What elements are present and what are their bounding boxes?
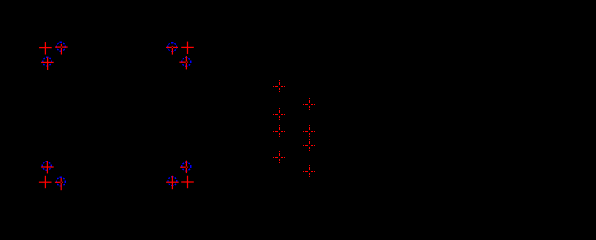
fiducial cross I (bottom-left pair right, selected) bbox=[55, 178, 63, 190]
dark centre dot of cross I bbox=[61, 182, 62, 183]
fiducial cross J (bottom-right upper, selected) bbox=[180, 161, 188, 173]
dark centre dot of cross D bbox=[172, 47, 173, 48]
selection circle on cross K bbox=[168, 177, 177, 186]
selection circle on cross D bbox=[168, 43, 177, 52]
fiducial cross F (top-right lower, selected) bbox=[179, 56, 188, 69]
fiducial cross H (bottom-left, plain) bbox=[39, 176, 52, 188]
selection circle on cross B bbox=[57, 42, 66, 51]
selection circle on cross F bbox=[182, 58, 191, 67]
dashed pad cross N4 bbox=[303, 165, 315, 177]
dashed pad cross M2 bbox=[273, 108, 285, 120]
dashed pad cross M4 bbox=[273, 151, 285, 163]
dashed pad cross M3 bbox=[273, 125, 285, 137]
selection circle on cross G bbox=[42, 162, 51, 171]
selection circle on cross J bbox=[182, 162, 191, 171]
dark centre dot of cross F bbox=[186, 62, 187, 63]
dashed pad cross N2 bbox=[303, 125, 315, 137]
selection circle on cross I bbox=[57, 177, 66, 186]
fiducial cross D (top-right pair left, selected) bbox=[166, 46, 178, 55]
dashed pad cross M1 bbox=[273, 80, 285, 92]
fiducial cross K (bottom-right pair left, selected) bbox=[166, 176, 179, 189]
fiducial cross B (top-left pair right, selected) bbox=[55, 44, 68, 55]
fiducial cross C (top-left lower, selected) bbox=[41, 57, 54, 70]
dark centre dot of cross J bbox=[186, 167, 187, 168]
fiducial cross A (top-left, plain) bbox=[39, 42, 52, 54]
fiducial cross G (bottom-left upper, selected) bbox=[41, 161, 54, 173]
dark centre dot of cross B bbox=[61, 46, 62, 47]
fiducial cross L (bottom-right, plain) bbox=[181, 176, 194, 189]
fiducial cross E (top-right, plain) bbox=[181, 42, 194, 54]
dashed pad cross N1 bbox=[303, 98, 315, 110]
dashed pad cross N3 bbox=[303, 139, 315, 151]
selection circle on cross C bbox=[43, 57, 52, 66]
